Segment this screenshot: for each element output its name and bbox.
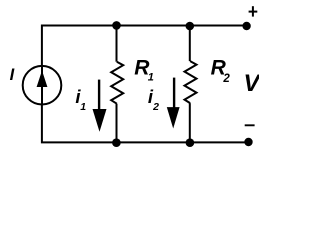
wire: vertical through current source	[41, 66, 43, 104]
wire: R1 top lead	[116, 25, 118, 61]
node: R2 top junction	[186, 22, 195, 31]
current source arrowhead	[37, 71, 48, 88]
node: positive terminal	[242, 22, 250, 30]
svg-text:1: 1	[80, 101, 86, 113]
svg-text:I: I	[10, 66, 15, 84]
wire: R2 top lead	[189, 26, 191, 61]
wire: R1 bottom lead	[116, 104, 118, 143]
svg-text:1: 1	[148, 71, 154, 83]
current arrow i1	[98, 80, 100, 112]
svg-text:2: 2	[222, 73, 230, 85]
node: negative terminal	[244, 138, 252, 146]
minus sign	[245, 124, 255, 126]
current source I (circle)	[23, 66, 62, 105]
wire: bottom rail with left rise from current source	[42, 104, 249, 142]
current arrow i2	[173, 78, 175, 110]
resistor R1 zigzag	[111, 62, 123, 104]
node: R2 bottom junction	[186, 138, 195, 147]
wire: R2 bottom lead	[189, 103, 191, 143]
node: R1 bottom junction	[112, 138, 121, 147]
node: R1 top junction	[112, 21, 121, 30]
plus sign	[249, 6, 258, 16]
resistor R2 zigzag	[185, 61, 197, 103]
svg-text:2: 2	[152, 101, 159, 113]
wire: top rail with left drop to current source	[42, 26, 247, 67]
svg-text:V: V	[244, 70, 260, 97]
